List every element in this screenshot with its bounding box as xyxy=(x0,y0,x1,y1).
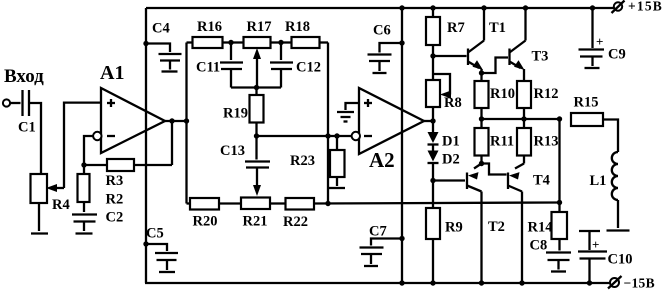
potentiometer R4 xyxy=(31,174,70,213)
svg-text:R21: R21 xyxy=(243,214,268,230)
wire twin-T left vertical xyxy=(185,43,187,204)
node top rail junction at A2 supply xyxy=(399,5,404,285)
potentiometer R21 xyxy=(241,198,286,230)
svg-text:C2: C2 xyxy=(106,210,124,226)
resistor R13 xyxy=(517,119,558,164)
wire A2 + input to ground xyxy=(346,103,360,110)
svg-text:C1: C1 xyxy=(18,120,36,136)
svg-text:C4: C4 xyxy=(152,21,170,37)
node R23 tap xyxy=(325,133,339,138)
potentiometer R17 xyxy=(231,19,281,88)
svg-text:C9: C9 xyxy=(608,47,626,63)
resistor R18 xyxy=(281,19,328,48)
svg-text:C11: C11 xyxy=(196,60,220,76)
terminal -15V xyxy=(608,276,655,290)
wire feedback to A1 output xyxy=(169,118,174,165)
svg-text:R11: R11 xyxy=(490,134,514,150)
transistor T3 xyxy=(510,5,549,81)
node R16-R17 junction xyxy=(228,40,233,45)
svg-text:R7: R7 xyxy=(447,20,465,36)
wire output node down to feedback junction xyxy=(558,119,560,212)
resistor R3 xyxy=(84,159,172,189)
svg-text:A1: A1 xyxy=(100,62,124,84)
svg-text:C5: C5 xyxy=(146,226,164,242)
svg-text:T2: T2 xyxy=(488,219,505,235)
wire top +15V rail xyxy=(146,7,614,9)
wire T2 emitter to T4 base xyxy=(482,164,507,175)
transistor T2 xyxy=(467,164,505,286)
wire C11-C12 bottom bridge xyxy=(231,85,281,90)
svg-text:C13: C13 xyxy=(220,143,245,159)
wire A1 supply vertical line xyxy=(145,8,147,283)
svg-text:R10: R10 xyxy=(490,86,515,102)
capacitor C6 xyxy=(368,23,405,74)
svg-text:R12: R12 xyxy=(534,86,559,102)
wire T1 emitter to T3 base xyxy=(482,58,509,74)
svg-text:T3: T3 xyxy=(532,49,549,65)
wire R15 to L1 xyxy=(603,120,618,153)
svg-text:R2: R2 xyxy=(106,192,124,208)
capacitor C1 xyxy=(18,90,36,136)
resistor R11 xyxy=(475,119,515,166)
capacitor C11 xyxy=(196,43,243,88)
diode D1 xyxy=(428,121,460,151)
svg-text:R19: R19 xyxy=(223,106,248,122)
wire input to C1 xyxy=(10,102,21,104)
wire A1 output xyxy=(165,118,189,123)
svg-text:R3: R3 xyxy=(106,173,124,189)
capacitor C5 xyxy=(143,226,178,273)
svg-text:C6: C6 xyxy=(373,23,391,39)
svg-text:+: + xyxy=(596,34,603,49)
svg-text:Вход: Вход xyxy=(4,66,44,87)
wire R4 bottom lead xyxy=(38,203,40,231)
svg-text:R17: R17 xyxy=(247,19,272,35)
svg-text:+: + xyxy=(592,237,599,252)
resistor R10 xyxy=(475,73,515,119)
potentiometer R8 xyxy=(426,56,462,121)
svg-text:R15: R15 xyxy=(574,95,599,111)
wire A2 supply vertical line xyxy=(401,8,403,283)
capacitor C10 xyxy=(578,231,632,286)
wire to T2 base xyxy=(433,179,465,181)
wire A2 output xyxy=(424,118,436,123)
wire R4 wiper to A1 + input xyxy=(64,103,101,188)
svg-text:R13: R13 xyxy=(534,134,559,150)
wire A1 inverting input to feedback node xyxy=(81,136,93,168)
svg-text:R23: R23 xyxy=(290,153,315,169)
resistor R15 xyxy=(571,95,603,127)
op-amp A2 xyxy=(352,88,424,172)
wire to T1 base xyxy=(433,55,467,57)
inductor L1 xyxy=(590,152,630,231)
svg-text:R20: R20 xyxy=(193,214,218,230)
svg-text:C7: C7 xyxy=(369,224,387,240)
wire R19 node to A2 inverting input xyxy=(257,135,352,137)
svg-text:R9: R9 xyxy=(445,220,463,236)
resistor R2 xyxy=(78,165,124,212)
node R17-R18 junction xyxy=(278,40,283,45)
svg-text:R16: R16 xyxy=(197,19,222,35)
svg-text:A2: A2 xyxy=(369,148,395,172)
resistor R19 xyxy=(223,88,264,139)
resistor R9 xyxy=(426,181,463,286)
resistor R23 xyxy=(290,136,345,188)
capacitor C4 xyxy=(143,21,181,72)
capacitor C13 xyxy=(220,136,270,196)
svg-text:R4: R4 xyxy=(52,197,70,213)
resistor R12 xyxy=(517,81,558,119)
resistor R20 xyxy=(187,198,242,230)
wire bottom -15V rail xyxy=(145,282,610,284)
capacitor C12 xyxy=(270,43,321,88)
svg-text:R22: R22 xyxy=(283,214,308,230)
resistor R14 xyxy=(528,212,568,251)
svg-text:−15В: −15В xyxy=(624,276,655,290)
svg-text:R8: R8 xyxy=(444,95,462,111)
capacitor C9 xyxy=(579,5,626,68)
svg-text:C12: C12 xyxy=(296,60,321,76)
svg-text:T4: T4 xyxy=(533,173,550,189)
transistor T1 xyxy=(468,5,506,75)
ground R4 xyxy=(31,232,48,234)
transistor T4 xyxy=(508,164,550,286)
resistor R22 xyxy=(283,198,314,230)
svg-text:T1: T1 xyxy=(489,20,506,36)
ground C2 xyxy=(76,232,93,234)
wire C1 to R4 xyxy=(29,103,41,174)
node input terminal xyxy=(3,66,44,107)
wire output row xyxy=(479,116,562,121)
svg-text:D2: D2 xyxy=(442,152,460,168)
wire feedback line R22 to output xyxy=(314,200,562,206)
resistor R16 xyxy=(187,19,232,48)
capacitor C8 xyxy=(530,238,572,272)
svg-text:L1: L1 xyxy=(590,173,607,189)
diode D2 xyxy=(428,151,460,184)
op-amp A1 xyxy=(93,62,165,153)
svg-text:R18: R18 xyxy=(285,19,310,35)
svg-text:D1: D1 xyxy=(442,134,460,150)
capacitor C2 xyxy=(72,210,123,232)
svg-text:R14: R14 xyxy=(528,220,553,236)
svg-text:C10: C10 xyxy=(608,252,633,268)
terminal +15V xyxy=(612,0,664,14)
resistor R7 xyxy=(426,5,465,58)
capacitor C7 xyxy=(360,224,405,267)
svg-text:C8: C8 xyxy=(530,238,548,254)
svg-text:+15В: +15В xyxy=(628,0,663,14)
wire twin-T right vertical xyxy=(327,43,329,204)
ground A2 + input xyxy=(337,112,354,122)
